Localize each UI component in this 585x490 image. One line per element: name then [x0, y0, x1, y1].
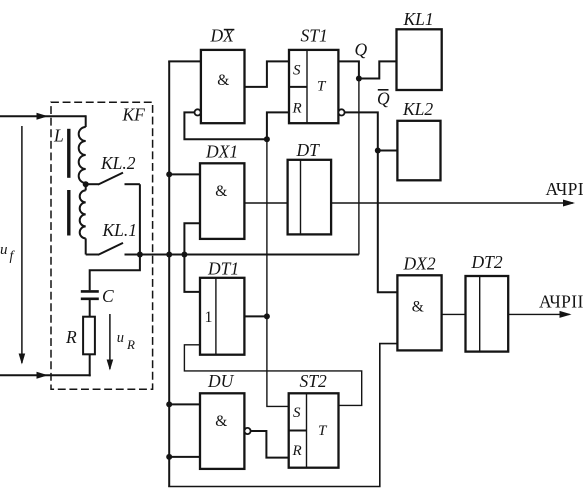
label & of DX	[217, 72, 229, 89]
node Q	[356, 76, 362, 82]
wire DX2 output to DT2	[442, 313, 466, 315]
svg-text:&: &	[217, 72, 229, 89]
wire ST1 R input	[267, 112, 289, 139]
wire Q riser to bus line	[358, 79, 360, 255]
node DT1 output	[264, 313, 270, 319]
label ACHR II	[539, 292, 584, 312]
switch contact KL.1	[86, 243, 140, 255]
capacitor C	[81, 291, 99, 298]
wire DX inverted input net	[184, 112, 267, 139]
svg-text:KL.2: KL.2	[100, 153, 136, 173]
svg-text:АЧРII: АЧРII	[539, 292, 584, 312]
label DX2	[403, 254, 436, 274]
wire DX output to ST1 S	[245, 61, 290, 87]
label ACHR I	[546, 179, 585, 199]
dashed box KF	[51, 102, 153, 389]
inductor core bar lower	[67, 190, 70, 236]
svg-text:R: R	[292, 101, 302, 117]
wire bus to DU bottom input	[169, 456, 200, 458]
label & of DU	[215, 413, 227, 430]
and-gate DX1	[200, 163, 244, 239]
node junction between windings	[83, 181, 89, 187]
wire Qbar to KL2 and DX2	[345, 112, 398, 292]
svg-text:KF: KF	[122, 105, 146, 125]
svg-text:R: R	[126, 337, 135, 352]
wire bus to DX1 top input	[169, 173, 200, 175]
svg-text:S: S	[293, 405, 301, 421]
resistor R	[83, 317, 95, 355]
label u_R	[117, 330, 135, 352]
svg-text:Q: Q	[355, 40, 368, 60]
node R feedback	[264, 136, 270, 142]
label L	[53, 126, 64, 146]
svg-text:АЧРI: АЧРI	[546, 179, 585, 199]
inverter bubble DX input	[195, 109, 201, 115]
label DX1	[205, 142, 238, 162]
divider DT	[300, 160, 302, 235]
svg-text:C: C	[102, 286, 114, 306]
svg-text:L: L	[53, 126, 64, 146]
node bus DX1 input	[166, 171, 172, 177]
wire DT1 bottom input from ST2 Q	[184, 345, 361, 406]
svg-text:R: R	[292, 443, 302, 459]
label Q	[355, 40, 368, 60]
label KL1	[403, 9, 434, 29]
wire coil top lead	[85, 115, 87, 127]
svg-text:f: f	[10, 248, 16, 263]
node Qbar KL2 branch	[375, 148, 381, 154]
and-gate DX2	[397, 275, 441, 350]
voltage arrow u_R	[109, 314, 111, 369]
voltage arrow u_f	[21, 126, 23, 363]
svg-text:DT1: DT1	[207, 259, 239, 279]
pin label R	[292, 443, 302, 459]
svg-text:Q: Q	[377, 89, 390, 109]
wire coil bottom lead	[85, 238, 87, 254]
pin label T	[318, 423, 328, 439]
svg-text:ST2: ST2	[300, 371, 327, 391]
wire to capacitor	[90, 255, 140, 291]
svg-text:u: u	[0, 242, 8, 258]
svg-text:u: u	[117, 330, 124, 346]
wire winding joint	[85, 183, 87, 190]
label DU	[207, 371, 235, 391]
node bus KL.1	[166, 252, 172, 258]
inverter bubble DU output	[244, 428, 250, 434]
svg-text:DX: DX	[210, 26, 236, 46]
divider ST2 vertical	[306, 393, 308, 467]
label DT2	[471, 252, 503, 272]
wire DT output to ACHR I	[331, 202, 573, 204]
svg-text:T: T	[318, 423, 328, 439]
relay KL2	[397, 121, 440, 181]
inductor L lower winding	[80, 190, 86, 238]
inverter bubble ST1 Qbar	[338, 109, 344, 115]
label DT1	[207, 259, 239, 279]
svg-text:DX2: DX2	[403, 254, 436, 274]
svg-text:DX1: DX1	[205, 142, 238, 162]
svg-text:T: T	[317, 79, 327, 95]
wire Qbar branch to KL2	[378, 150, 398, 152]
node branch DX1/DT1	[181, 252, 187, 258]
delay element DT	[288, 160, 332, 235]
switch contact KL.2	[86, 173, 140, 255]
divider DT1	[215, 278, 217, 355]
arrow ACHR I	[563, 200, 575, 207]
wire DX1 bottom input	[184, 223, 200, 254]
svg-text:KL1: KL1	[403, 9, 434, 29]
svg-text:DT2: DT2	[471, 252, 503, 272]
label ST1	[301, 26, 328, 46]
pin label S	[293, 63, 301, 79]
node bus DU top input	[166, 401, 172, 407]
inductor core bar upper	[67, 129, 70, 178]
svg-text:&: &	[412, 299, 424, 316]
wire top input rail	[0, 115, 86, 117]
wire feedback riser to ST2 S	[267, 139, 289, 406]
wire DT1 output	[244, 315, 267, 317]
arrow on bottom rail	[37, 372, 49, 379]
relay KL1	[397, 29, 442, 90]
svg-text:S: S	[293, 63, 301, 79]
label & of DX1	[215, 183, 227, 200]
label KL2	[402, 99, 433, 119]
svg-text:DU: DU	[207, 371, 235, 391]
pin label T	[317, 79, 327, 95]
svg-text:ST1: ST1	[301, 26, 328, 46]
label & of DX2	[412, 299, 424, 316]
label R	[65, 327, 77, 347]
divider ST1 vertical	[306, 50, 308, 123]
wire ST1 Q output to KL1	[338, 61, 396, 78]
wire bottom input rail	[0, 374, 91, 376]
wire DU output to ST2 R	[251, 431, 289, 458]
wire capacitor to resistor	[89, 300, 91, 317]
wire DT1 top input from branch node	[184, 255, 200, 292]
label KL.1	[102, 220, 138, 240]
arrow on top rail	[37, 113, 49, 120]
delay element DT2	[466, 276, 509, 352]
trigger ST1	[289, 50, 338, 123]
pin label R	[292, 101, 302, 117]
wire KL.1 output to Q riser	[140, 254, 359, 256]
and-gate DU	[200, 393, 244, 469]
label Qbar overline	[377, 89, 390, 109]
divider ST1 S/R	[289, 86, 307, 88]
pin label S	[293, 405, 301, 421]
svg-text:DT: DT	[296, 140, 321, 160]
svg-text:KL2: KL2	[402, 99, 433, 119]
node KL.1 output	[137, 252, 143, 258]
svg-text:KL.1: KL.1	[102, 220, 138, 240]
label C	[102, 286, 114, 306]
label KL.2	[100, 153, 136, 173]
wire DX1 output to DT	[244, 202, 287, 204]
and-gate DX	[201, 50, 245, 123]
label DT	[296, 140, 321, 160]
inductor L upper winding	[79, 127, 86, 183]
label u_f	[0, 242, 16, 263]
trigger ST2	[289, 393, 339, 467]
label DX overline	[210, 26, 236, 46]
wire bus to DX input	[168, 60, 201, 62]
svg-text:R: R	[65, 327, 77, 347]
svg-text:&: &	[215, 183, 227, 200]
label KF	[122, 105, 146, 125]
divider DT2	[479, 276, 481, 352]
or-gate DT1	[200, 278, 244, 355]
svg-text:1: 1	[205, 309, 213, 326]
wire resistor bottom lead	[89, 354, 91, 376]
arrow ACHR II	[560, 311, 572, 318]
node bus DU bottom input	[166, 454, 172, 460]
svg-text:&: &	[215, 413, 227, 430]
wire main bus vertical	[168, 61, 170, 486]
wire DX2 bottom input riser	[168, 344, 397, 487]
wire DT2 output to ACHR II	[508, 313, 569, 315]
wire bus to DU top input	[169, 403, 200, 405]
divider ST2 S/R	[289, 430, 307, 432]
label 1 of DT1	[205, 309, 213, 326]
label ST2	[300, 371, 327, 391]
